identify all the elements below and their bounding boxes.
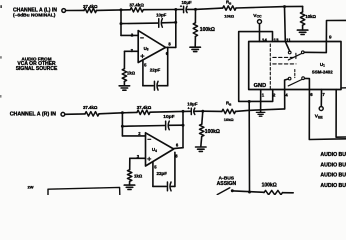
svg-text:37.4kΩ: 37.4kΩ bbox=[83, 4, 98, 9]
svg-text:14: 14 bbox=[262, 38, 268, 43]
svg-text:AUDIO BUS: AUDIO BUS bbox=[320, 183, 346, 189]
svg-text:U1: U1 bbox=[320, 62, 325, 68]
svg-text:11: 11 bbox=[286, 38, 291, 43]
svg-text:VCC: VCC bbox=[253, 13, 262, 19]
svg-text:10pF: 10pF bbox=[163, 114, 174, 120]
svg-text:10kΩ: 10kΩ bbox=[305, 14, 316, 19]
svg-text:U4: U4 bbox=[152, 147, 157, 153]
svg-text:GND: GND bbox=[254, 83, 266, 89]
svg-text:RB: RB bbox=[226, 101, 232, 107]
svg-text:9: 9 bbox=[329, 35, 332, 40]
svg-text:U3: U3 bbox=[144, 46, 149, 52]
svg-text:RB: RB bbox=[226, 0, 232, 5]
svg-text:2W: 2W bbox=[28, 184, 34, 189]
svg-text:SIGNAL SOURCE: SIGNAL SOURCE bbox=[16, 66, 58, 72]
svg-text:37.4kΩ: 37.4kΩ bbox=[137, 105, 152, 110]
svg-text:10μF: 10μF bbox=[181, 0, 192, 5]
svg-text:100kΩ: 100kΩ bbox=[262, 183, 277, 189]
svg-text:22pF: 22pF bbox=[157, 171, 168, 176]
svg-text:100kΩ: 100kΩ bbox=[205, 129, 220, 135]
svg-text:SSM-2402: SSM-2402 bbox=[312, 70, 333, 75]
svg-text:10kΩ: 10kΩ bbox=[224, 117, 235, 122]
svg-text:AUDIO BUS: AUDIO BUS bbox=[320, 152, 346, 158]
svg-text:100kΩ: 100kΩ bbox=[200, 27, 215, 33]
svg-text:ASSIGN: ASSIGN bbox=[217, 181, 237, 187]
svg-text:AUDIO BUS: AUDIO BUS bbox=[320, 162, 346, 168]
svg-text:10kΩ: 10kΩ bbox=[224, 13, 235, 18]
svg-text:10pF: 10pF bbox=[156, 12, 167, 17]
svg-text:CHANNEL A (R) IN: CHANNEL A (R) IN bbox=[10, 112, 56, 118]
svg-text:VEE: VEE bbox=[315, 114, 324, 120]
svg-text:(–6dBu NOMINAL): (–6dBu NOMINAL) bbox=[13, 12, 56, 18]
svg-text:1kΩ: 1kΩ bbox=[127, 71, 136, 76]
svg-text:AUDIO BUS: AUDIO BUS bbox=[320, 173, 346, 179]
svg-text:37.4kΩ: 37.4kΩ bbox=[129, 3, 144, 8]
svg-text:10μF: 10μF bbox=[187, 101, 198, 106]
svg-text:1kΩ: 1kΩ bbox=[134, 173, 143, 178]
svg-text:13: 13 bbox=[273, 38, 279, 43]
svg-text:22pF: 22pF bbox=[150, 67, 161, 72]
svg-text:37.4kΩ: 37.4kΩ bbox=[83, 105, 98, 110]
